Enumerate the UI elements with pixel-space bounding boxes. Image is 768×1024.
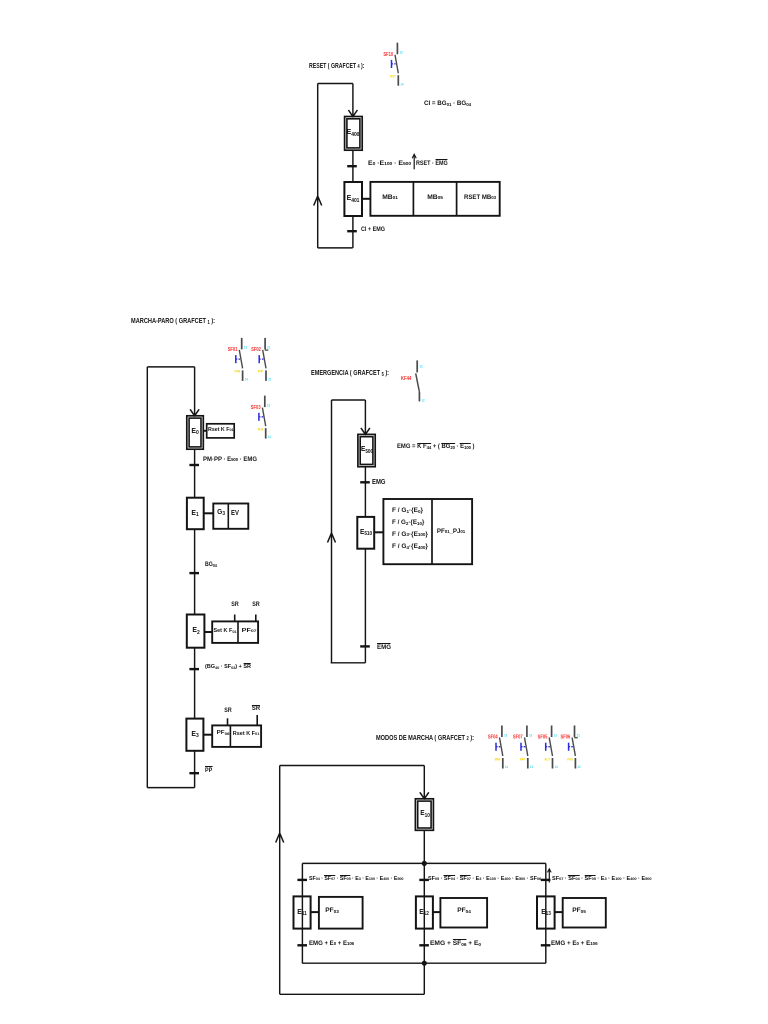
- svg-text:PP: PP: [258, 369, 264, 374]
- svg-text:13: 13: [244, 346, 247, 350]
- svg-text:14: 14: [268, 435, 272, 439]
- svg-text:22: 22: [268, 378, 271, 382]
- svg-text:SF06: SF06: [561, 735, 571, 741]
- svg-text:13: 13: [267, 403, 270, 407]
- svg-text:14: 14: [505, 765, 509, 769]
- svg-text:22: 22: [578, 765, 581, 769]
- svg-text:11: 11: [420, 365, 423, 369]
- svg-text:13: 13: [529, 733, 532, 737]
- svg-text:21: 21: [577, 733, 580, 737]
- svg-text:ALT: ALT: [544, 756, 550, 761]
- svg-text:13: 13: [554, 733, 557, 737]
- svg-text:PM: PM: [235, 369, 241, 374]
- svg-text:KF44: KF44: [401, 376, 412, 382]
- svg-text:PAS: PAS: [567, 756, 573, 761]
- svg-text:SF03: SF03: [251, 405, 261, 411]
- svg-text:13: 13: [400, 51, 403, 55]
- svg-text:SF02: SF02: [251, 347, 261, 353]
- svg-text:21: 21: [267, 346, 270, 350]
- svg-text:SF01: SF01: [228, 347, 238, 353]
- svg-text:14: 14: [400, 82, 404, 86]
- svg-text:MAN: MAN: [495, 756, 501, 761]
- svg-text:14: 14: [555, 765, 559, 769]
- svg-text:SF10: SF10: [383, 52, 393, 58]
- svg-text:SF05: SF05: [538, 735, 548, 741]
- svg-text:SF04: SF04: [488, 735, 498, 741]
- svg-text:RA: RA: [258, 426, 264, 431]
- svg-text:12: 12: [422, 399, 425, 403]
- svg-text:13: 13: [504, 733, 507, 737]
- svg-text:RST: RST: [390, 74, 396, 79]
- svg-text:SF07: SF07: [513, 735, 523, 741]
- svg-text:PAP: PAP: [520, 756, 526, 761]
- svg-text:14: 14: [530, 765, 534, 769]
- svg-text:14: 14: [245, 378, 249, 382]
